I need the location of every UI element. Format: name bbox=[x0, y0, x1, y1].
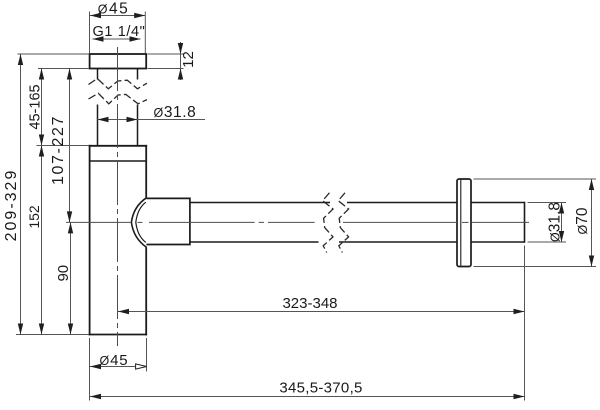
svg-text:Ø45: Ø45 bbox=[99, 352, 128, 369]
arrows 90 bbox=[68, 222, 73, 233]
dim line Ø45 top bbox=[90, 15, 145, 17]
inlet pipe walls bbox=[98, 69, 138, 146]
dim line 107-227 bbox=[69, 69, 71, 223]
svg-text:45-165: 45-165 bbox=[28, 84, 44, 129]
dim line 12 bbox=[180, 42, 182, 80]
arrows 107-227 bbox=[67, 69, 72, 80]
ext: body bottom left bbox=[16, 334, 89, 336]
ext: flange bottom right (for 12) bbox=[148, 68, 184, 70]
ext: body bottom right vertical (Ø45) bbox=[146, 338, 148, 372]
arrows 45-165 bbox=[39, 69, 44, 80]
arrow Ø45 bottom left (filled) bbox=[90, 364, 101, 369]
ext: pipe end vertical bbox=[524, 246, 526, 401]
dim line Ø31.8 right bbox=[561, 203, 563, 243]
svg-text:Ø70: Ø70 bbox=[574, 207, 591, 234]
elbow dome inner seam bbox=[136, 202, 146, 242]
arrows Ø31.8 top bbox=[98, 117, 109, 122]
svg-text:323-348: 323-348 bbox=[282, 295, 337, 312]
arrows 152 bbox=[39, 146, 44, 157]
dim line 345,5-370,5 bbox=[90, 396, 525, 398]
dim line 323-348 bbox=[118, 311, 525, 313]
ext: Ø45 top left vertical bbox=[89, 12, 91, 54]
arrows G1 1/4 bbox=[93, 36, 104, 41]
arrows 209-329 bbox=[18, 54, 23, 65]
trap body (bottle cylinder) bbox=[90, 146, 147, 335]
arrows Ø45 top bbox=[90, 13, 101, 18]
dim line 209-329 bbox=[20, 54, 22, 335]
horizontal centerline bbox=[66, 221, 529, 223]
dim line Ø45 bottom bbox=[90, 366, 147, 368]
svg-text:12: 12 bbox=[180, 51, 197, 68]
dim line Ø31.8 top bbox=[98, 119, 206, 121]
horizontal connector nut bbox=[146, 198, 190, 244]
arrow Ø45 bottom right (open) bbox=[136, 364, 147, 369]
pipe break symbol (horizontal pipe) bbox=[323, 193, 349, 253]
arrows 345,5-370,5 bbox=[90, 394, 101, 399]
ext: body bottom left vertical (shared Ø45 / 345,5) bbox=[89, 338, 91, 401]
arrows 12 bbox=[178, 43, 183, 54]
ext: flange bottom left bbox=[38, 68, 89, 70]
svg-text:Ø31.8: Ø31.8 bbox=[154, 104, 197, 121]
dim line 90 bbox=[70, 222, 72, 334]
ext: pipe top right (Ø31.8) bbox=[528, 202, 567, 204]
svg-text:G1 1/4": G1 1/4" bbox=[93, 24, 146, 40]
svg-text:90: 90 bbox=[55, 265, 72, 282]
ext: flange top left bbox=[18, 53, 89, 55]
wall flange lip line bbox=[460, 180, 462, 266]
ext: body nut top left bbox=[37, 145, 89, 147]
ext: flange top right (for 12) bbox=[148, 53, 184, 55]
svg-text:107-227: 107-227 bbox=[50, 115, 67, 185]
dim line Ø70 bbox=[591, 179, 593, 267]
pipe break symbol (inlet pipe) bbox=[89, 79, 148, 104]
ext: flange bottom right (Ø70) bbox=[474, 266, 597, 268]
elbow dome (bullet nose) bbox=[131, 198, 146, 247]
arrows Ø70 bbox=[589, 179, 594, 190]
ext: flange top right (Ø70) bbox=[474, 178, 597, 180]
wall flange bbox=[457, 179, 471, 267]
ext: pipe bottom right (Ø31.8) bbox=[528, 241, 567, 243]
arrows 323-348 bbox=[118, 309, 129, 314]
arrows Ø31.8 right bbox=[559, 203, 564, 214]
dim line 45-165 / 152 bbox=[41, 69, 43, 335]
svg-text:Ø31.8: Ø31.8 bbox=[546, 202, 563, 242]
dim line G1 1/4 bbox=[93, 38, 141, 40]
horizontal pipe right section bbox=[471, 202, 525, 243]
svg-text:Ø45: Ø45 bbox=[98, 1, 129, 18]
svg-text:152: 152 bbox=[26, 205, 42, 229]
ext: Ø45 top right vertical bbox=[144, 12, 146, 54]
svg-text:209-329: 209-329 bbox=[3, 169, 20, 242]
vertical centerline bbox=[117, 47, 119, 346]
horizontal pipe left section bbox=[190, 203, 457, 243]
inlet flange (top nut) bbox=[90, 54, 147, 69]
svg-text:345,5-370,5: 345,5-370,5 bbox=[279, 379, 362, 396]
body top nut line bbox=[90, 160, 147, 162]
